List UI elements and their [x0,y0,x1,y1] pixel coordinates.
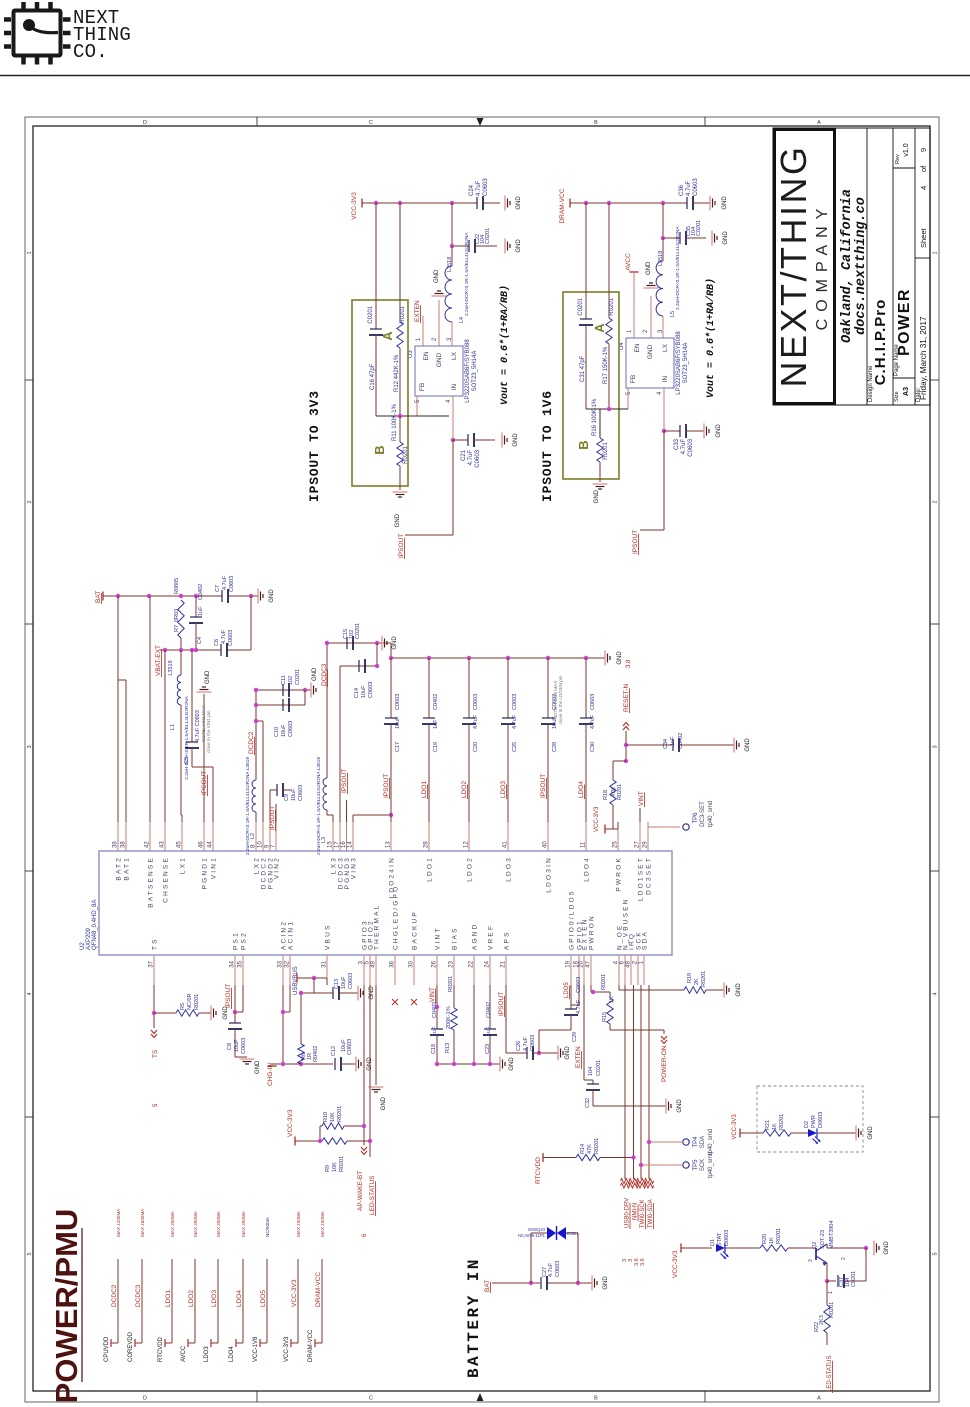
svg-text:IPSOUT: IPSOUT [540,774,547,798]
svg-text:AP-WAKE-BT: AP-WAKE-BT [357,1171,364,1211]
svg-text:C13: C13 [334,979,340,989]
svg-text:BACKUP: BACKUP [412,910,419,950]
U2 bottom pin 6 N_VBUSEN [624,955,626,985]
svg-text:D2: D2 [804,1121,810,1128]
U2 top pin 29 DC3SET [647,822,649,851]
LED D1 STAT [716,1244,725,1252]
svg-text:B: B [372,445,387,454]
U2 top pin 39 BAT2 [117,822,119,851]
svg-text:C0603: C0603 [555,1261,561,1277]
svg-text:R0201: R0201 [194,994,200,1010]
svg-text:TP6: TP6 [693,812,699,824]
svg-text:GND: GND [677,1099,683,1113]
svg-text:R0805: R0805 [174,578,180,594]
ground at U4 pin 2 [644,287,659,289]
wire to D1 [681,1247,712,1249]
ground at C22 [504,239,506,254]
U2 bottom pin 23 BIAS [453,955,455,985]
svg-text:23: 23 [449,960,455,967]
U2 bottom pin 47 PWRON [590,955,592,985]
capacitor C16 [370,328,382,330]
ground at C36 [709,196,711,211]
U2 bottom pin 3 GPIO3 [363,955,365,985]
svg-text:C33: C33 [674,438,680,450]
svg-text:29: 29 [643,841,649,848]
svg-text:4: 4 [27,992,33,995]
svg-text:C10: C10 [274,727,280,737]
svg-text:C29: C29 [572,1032,578,1042]
ground at R19 [723,983,725,998]
svg-text:VREF: VREF [488,924,495,950]
svg-text:GND: GND [646,261,652,275]
svg-text:AGND: AGND [472,922,479,950]
svg-text:VCC-3V3: VCC-3V3 [351,192,358,220]
svg-text:L3518: L3518 [168,660,174,675]
U2 top pin 42 BATSENSE [149,822,151,851]
wire LDO bypass rail [391,657,605,659]
svg-text:10uF: 10uF [361,685,367,698]
svg-text:2: 2 [27,500,33,503]
svg-text:GND: GND [516,196,522,210]
svg-text:VCC-3V3: VCC-3V3 [291,1279,298,1307]
U2 top pin 14 VIN3 [352,822,354,851]
ground at C26 [557,1046,559,1061]
U2 bottom pin 36 CHGLED/GPO [394,955,396,985]
wire FB net [376,415,449,417]
svg-text:DCDC2: DCDC2 [111,1284,118,1307]
svg-text:GND: GND [434,269,440,283]
svg-text:GND: GND [617,651,623,665]
wire DCDC3 C15 row [327,642,382,644]
svg-text:TS: TS [152,937,159,950]
svg-text:PS1: PS1 [233,931,240,950]
resistor R17 [606,318,612,344]
power flag DRAM-VCC [569,199,571,208]
wire VIN3 jog to IPSOUT column [352,815,354,822]
resistor R12 [397,322,403,348]
svg-text:VIN2: VIN2 [274,856,281,879]
svg-text:LED-STATUS: LED-STATUS [369,1175,376,1215]
svg-text:Rev: Rev [895,154,901,164]
no-connect CHGLED [392,999,398,1005]
U2 bottom pin 33 ACIN2 [282,955,284,985]
svg-text:R0201: R0201 [337,1106,343,1122]
svg-text:C0402: C0402 [198,584,204,600]
svg-text:R16 100K-1%: R16 100K-1% [592,398,598,436]
svg-text:4.7uF: 4.7uF [548,1262,554,1277]
U2 top pin 13 LDO24IN [390,822,392,851]
resistor R22 [826,1281,828,1305]
svg-text:2: 2 [933,500,939,503]
svg-text:R10: R10 [323,1112,329,1122]
U2 bottom pin 35 PS2 [242,955,244,985]
offpage chevron RESET-N [623,723,629,731]
svg-text:tp40_smd: tp40_smd [708,1129,714,1155]
U2 bottom pin 37 TS [153,955,155,985]
svg-text:L1: L1 [170,724,176,730]
wire to R21 [740,1132,763,1134]
inductor L5 [662,238,664,261]
U2 bottom pin 5 GPIO2 [369,955,371,985]
U2 top pin 28 LDO1 [428,822,430,851]
ground at C34 [733,738,735,753]
svg-text:IRQ: IRQ [629,932,636,950]
svg-text:IPSOUT: IPSOUT [201,771,208,795]
svg-text:Size: Size [894,391,900,402]
wire EXTEN column [583,985,585,1080]
U2 top pin 11 LDO4 [585,822,587,851]
svg-text:C12: C12 [331,1046,337,1056]
svg-text:10uF: 10uF [281,724,287,737]
wire BAT input [492,1282,540,1284]
svg-text:C26: C26 [516,1041,522,1051]
svg-text:C: C [369,1396,373,1402]
ground below C8 [240,1058,255,1060]
power output flag CPUVDD / net DCDC2 [117,1259,119,1343]
svg-text:LDO1: LDO1 [165,1290,172,1307]
resistor R11 [399,416,401,442]
svg-text:IPSOUT TO 1V6: IPSOUT TO 1V6 [540,390,555,502]
svg-text:4.7uF: 4.7uF [476,180,482,196]
wire L5 to LX pin [662,316,664,338]
svg-text:BAT2: BAT2 [116,856,123,881]
U2 top pin 40 LDO3IN [547,822,549,851]
wire RTCVDD to R14 [543,1157,576,1159]
capacitor C32 [587,1083,599,1085]
svg-text:BATSENSE: BATSENSE [148,856,155,908]
svg-text:C0603: C0603 [693,178,699,196]
U2 bottom pin 1 SDA [643,955,645,985]
svg-text:45: 45 [177,841,183,848]
offpage chevron AP-WAKE-BT [361,1147,367,1155]
wire CHG-IN row [272,1063,333,1065]
svg-text:IN: IN [662,375,669,382]
svg-text:11: 11 [581,841,587,848]
svg-text:24: 24 [485,960,491,967]
svg-text:DCDC3: DCDC3 [321,663,328,686]
svg-text:4.7uF: 4.7uF [473,714,479,729]
title block rev cell [893,167,915,169]
U2 bottom pin 4 N_OE [618,955,620,985]
svg-text:13: 13 [386,841,392,848]
svg-text:47K: 47K [587,1144,593,1154]
svg-text:A3: A3 [903,387,910,396]
svg-text:GND: GND [884,1241,890,1255]
wire GPIO3 AP-WAKE-BT [363,985,365,1145]
svg-text:POWER: POWER [896,288,913,356]
wire VCC-3V3 pullup feed [295,1140,320,1142]
svg-text:44: 44 [208,841,214,848]
svg-text:C0603: C0603 [348,973,354,989]
U2 bottom pin 2 SCK [637,955,639,985]
U2 bottom pin 34 PS1 [234,955,236,985]
svg-text:R0201: R0201 [603,442,609,460]
wire VBAT-EXT row [160,649,221,651]
olive group box A/B 3V3 [352,300,408,486]
ground at VINT return [499,1057,501,1072]
svg-text:DCDC2: DCDC2 [248,731,255,754]
frame top center arrow [477,118,484,126]
capacitor C9 at PGND2 [269,790,271,822]
power output flag VCC-1V8 / net LDO5 [266,1259,268,1343]
regulator U4 LP3220SAB6F [626,338,674,388]
svg-text:VCC-1V8: VCC-1V8 [253,1336,259,1362]
svg-text:GND: GND [647,344,654,359]
svg-text:LDO2: LDO2 [461,781,468,798]
svg-text:5: 5 [27,1252,33,1255]
svg-text:BAT: BAT [484,1280,491,1292]
svg-text:B: B [594,120,598,126]
svg-text:CO.: CO. [73,41,108,63]
U2 bottom pin 22 AGND [473,955,475,985]
title block outline [773,128,930,405]
capacitor C8 [234,1012,236,1023]
capacitor C20 on LDO2 column [467,656,471,660]
svg-text:R0201: R0201 [779,1114,785,1130]
resistor R5 [154,1012,176,1014]
wire R17 column [608,203,610,318]
svg-text:GND: GND [255,1060,261,1074]
svg-text:1uF: 1uF [670,736,676,746]
wire DCDC2 pin drop [256,720,263,722]
resistor R15 PWRON [590,985,592,992]
U2 top pin 10 DCDC2 [262,822,264,851]
svg-text:10uF: 10uF [395,716,401,729]
svg-text:THERMAL: THERMAL [374,904,381,950]
frame column ticks and letters [256,117,258,126]
capacitor C6 [220,644,222,656]
svg-text:1uF: 1uF [432,1026,438,1036]
svg-text:R0201: R0201 [594,1138,600,1154]
capacitor C22 [468,240,470,252]
svg-text:1K: 1K [769,1237,775,1244]
svg-text:C0402: C0402 [433,694,439,710]
svg-text:C14: C14 [354,688,360,698]
svg-text:LDO3: LDO3 [211,1290,218,1307]
wire BAT2/BAT1 drop [117,596,119,822]
wire L4 to LX pin [451,322,453,346]
svg-text:42: 42 [145,841,151,848]
resistor R14 [576,1154,600,1160]
title block sheet divider [915,257,930,259]
svg-text:L3: L3 [321,837,327,843]
svg-text:MAX 200MA: MAX 200MA [216,1210,221,1237]
svg-text:STAT: STAT [717,1232,723,1246]
capacitor C24 [476,197,478,209]
svg-text:IPSOUT: IPSOUT [341,769,348,793]
wire TS net [153,985,155,1028]
svg-text:GND: GND [736,983,742,997]
svg-text:VCC-3V3: VCC-3V3 [672,1250,679,1278]
wire R12 column [399,203,401,322]
svg-text:GND: GND [594,489,600,503]
capacitor C11 [282,684,284,696]
svg-text:1: 1 [933,251,939,254]
capacitor C25 on LDO3 column [506,656,510,660]
inductor L4 [451,246,453,266]
svg-text:PGND1: PGND1 [202,856,209,889]
svg-text:SOT-23: SOT-23 [820,1230,826,1249]
wire R20 to Q2 [788,1247,816,1249]
wire APS [505,985,507,1053]
svg-text:C6: C6 [214,639,220,646]
svg-text:DC3-SET: DC3-SET [700,801,706,827]
capacitor C18 [431,1028,443,1030]
svg-text:VINT: VINT [638,791,645,806]
U2 bottom pin 20 EXTEN [583,955,585,985]
svg-text:C23: C23 [485,1044,491,1054]
svg-text:DCDC2: DCDC2 [261,856,268,889]
svg-text:4.7uF: 4.7uF [221,629,227,644]
svg-text:MMBT3904: MMBT3904 [829,1221,835,1249]
svg-text:36: 36 [390,960,396,967]
capacitor C31 [580,318,592,320]
svg-text:C4: C4 [197,637,203,644]
U2 bottom pin 48 IRQ [630,955,632,985]
svg-text:BAT: BAT [95,591,102,603]
resistor R16 [599,409,601,438]
svg-text:SDA: SDA [700,1136,706,1148]
svg-text:C0603: C0603 [483,178,489,196]
svg-text:L2: L2 [250,833,256,839]
U2 top pin 46 PGND1 [203,822,205,851]
wire RESET-N [625,731,627,761]
U2 top pin 38 BAT1 [125,822,127,851]
U2 top pin 7 VIN2 [275,822,277,851]
svg-text:DRAM-VCC: DRAM-VCC [559,188,566,223]
svg-text:2040Q23: 2040Q23 [528,1227,546,1232]
wire D1 to R20 [725,1247,760,1249]
svg-text:33: 33 [278,960,284,967]
inductor L3 DCDC3 [332,815,334,822]
svg-text:C0201: C0201 [578,297,584,315]
capacitor C21 branch [451,438,455,442]
svg-text:EN: EN [423,351,430,360]
svg-text:VCC-3V3: VCC-3V3 [284,1336,290,1362]
svg-text:RESET-N: RESET-N [623,684,630,712]
svg-text:IPSOUT: IPSOUT [398,534,405,558]
svg-text:CHGLED/GPO: CHGLED/GPO [393,885,400,950]
svg-text:2.2uH-DCR<0.1R-1.5A/ELL4LG2R2N: 2.2uH-DCR<0.1R-1.5A/ELL4LG2R2NA [464,232,470,316]
junctions on BAT rail [116,594,120,598]
svg-text:49: 49 [371,960,377,967]
svg-text:LX: LX [662,343,669,352]
svg-text:C16 47pF: C16 47pF [370,363,376,390]
svg-text:IPSOUT TO 3V3: IPSOUT TO 3V3 [307,390,322,502]
U2 top pin 15 LX3 [332,822,334,851]
svg-text:LX3: LX3 [331,856,338,874]
svg-text:R0201: R0201 [448,976,454,992]
svg-text:Oakland, California: Oakland, California [840,189,855,343]
svg-text:FB: FB [419,383,426,391]
wire BATSENSE drop [149,596,151,822]
ground at BAT input [591,1276,593,1291]
svg-text:C30: C30 [590,742,596,752]
svg-text:TS: TS [152,1049,159,1058]
wire FB net 1V6 [586,408,628,410]
svg-text:10uF: 10uF [341,976,347,989]
svg-text:VIN3: VIN3 [351,856,358,879]
wire ACIN drop [282,985,284,1064]
svg-text:tp40_smd: tp40_smd [708,801,714,827]
svg-text:C.H.I.P.Pro: C.H.I.P.Pro [872,299,889,386]
svg-text:R15: R15 [602,1012,608,1022]
inductor L1 [180,650,182,675]
U2 top pin 27 LDO1SET [639,822,641,851]
ground at DCDC2 rail [310,683,312,698]
svg-text:10K: 10K [332,1162,338,1172]
power output flag COREVDD / net DCDC3 [141,1259,143,1343]
ground at BAT rail [257,589,259,604]
svg-text:4.7uF: 4.7uF [590,714,596,729]
svg-text:102: 102 [288,676,294,685]
svg-text:LDO1SET: LDO1SET [638,856,645,901]
frame row ticks and numbers [25,379,33,381]
svg-text:VBUS: VBUS [325,923,332,950]
title block NEXT/THING logo box [775,130,835,404]
svg-text:D0603: D0603 [818,1112,824,1128]
svg-text:RTCVDD: RTCVDD [158,1336,164,1362]
svg-text:R19: R19 [687,973,693,983]
test point TP6 [648,826,680,828]
svg-text:GND: GND [868,1126,874,1140]
svg-text:PWRON: PWRON [589,914,596,950]
svg-text:VCC-3V3: VCC-3V3 [594,806,600,832]
svg-text:R20: R20 [762,1234,768,1244]
power output flag VCC-3V3 / net VCC-3V3 [297,1259,299,1343]
svg-text:R13: R13 [445,1043,451,1053]
svg-text:34: 34 [230,960,236,967]
U2 bottom pin 18 GPIO1 [578,955,580,985]
svg-text:R0201: R0201 [339,1156,345,1172]
svg-text:A: A [592,323,607,333]
svg-text:40: 40 [543,841,549,848]
svg-text:GND: GND [509,1057,515,1071]
svg-text:200K-1%: 200K-1% [446,1006,452,1029]
wire C35 branch [662,203,664,238]
svg-text:GND: GND [516,239,522,253]
svg-text:C0603: C0603 [688,438,694,456]
svg-text:C17: C17 [395,742,401,752]
svg-text:C0603: C0603 [475,449,481,467]
svg-text:2.2uH-DCR<0.1R-1.5A/ELL4LG2R2N: 2.2uH-DCR<0.1R-1.5A/ELL4LG2R2NA [184,695,190,779]
svg-text:C19: C19 [433,742,439,752]
svg-text:LDO3IN: LDO3IN [546,856,553,893]
U2 bottom pin 24 VREF [489,955,491,985]
wire VIN1 IPSOUT [192,766,213,768]
capacitor C36 [686,197,688,209]
svg-text:LDO2: LDO2 [467,856,474,882]
svg-text:NC/50MA: NC/50MA [265,1216,270,1237]
svg-text:VCC-3V3: VCC-3V3 [287,1109,294,1137]
resistor R13 [453,985,455,1008]
wire PGND3 [346,800,348,822]
capacitor C13 [332,987,334,999]
U2 top pin 41 LDO3 [507,822,509,851]
title block design name cell [892,128,894,405]
svg-text:R7: R7 [174,625,180,632]
svg-text:GND: GND [381,1096,387,1110]
svg-text:3.6: 3.6 [640,1258,646,1266]
wire R21 to D2 [791,1132,808,1134]
capacitor C29 [565,1008,577,1010]
svg-text:R12 442K-1%: R12 442K-1% [394,354,400,392]
svg-text:Friday, March 31, 2017: Friday, March 31, 2017 [919,316,928,400]
svg-text:PWROK: PWROK [616,856,623,892]
svg-text:C0603: C0603 [512,694,518,710]
resistor R9 [322,1138,347,1144]
ground at PGND1 [203,694,205,822]
